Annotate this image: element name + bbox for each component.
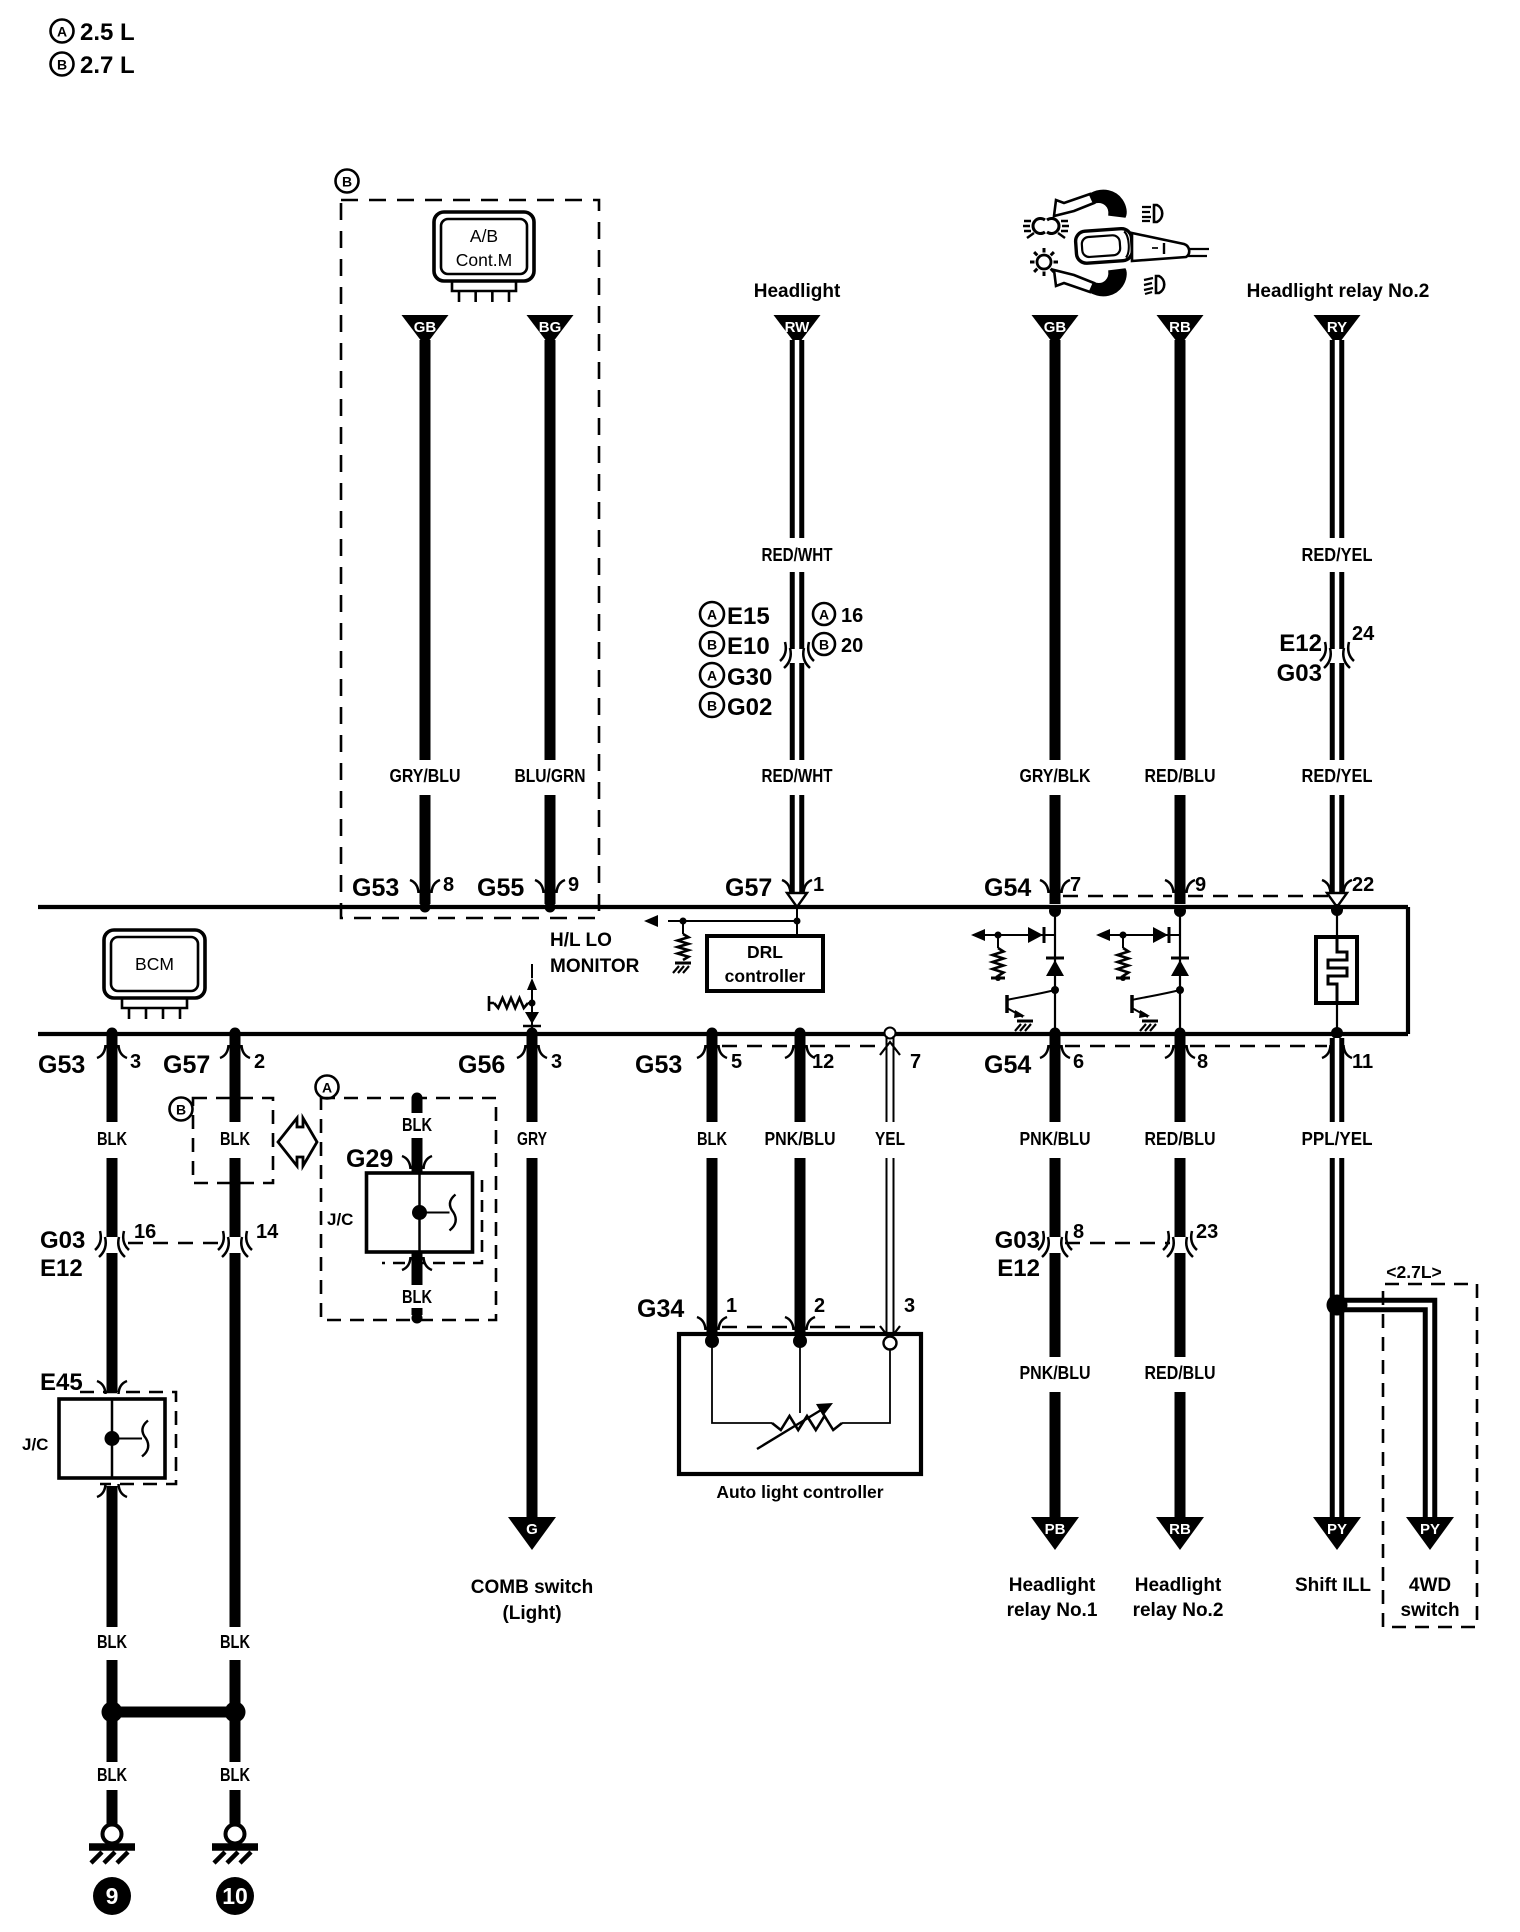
svg-text:Headlight: Headlight — [1135, 1575, 1222, 1596]
svg-text:GRY: GRY — [517, 1128, 548, 1149]
svg-text:RED/BLU: RED/BLU — [1145, 765, 1216, 786]
svg-text:G03: G03 — [1277, 660, 1322, 687]
svg-text:B: B — [342, 174, 352, 190]
svg-text:GB: GB — [1044, 319, 1067, 336]
svg-text:2.7 L: 2.7 L — [80, 52, 135, 79]
svg-text:A: A — [819, 607, 829, 623]
svg-text:G56: G56 — [458, 1051, 505, 1079]
svg-text:9: 9 — [568, 874, 579, 896]
svg-text:1: 1 — [726, 1295, 737, 1317]
svg-text:H/L LO: H/L LO — [550, 930, 612, 951]
svg-text:E12: E12 — [997, 1255, 1040, 1282]
svg-text:B: B — [57, 57, 67, 73]
svg-text:22: 22 — [1352, 874, 1374, 896]
svg-text:G54: G54 — [984, 874, 1031, 902]
svg-text:E15: E15 — [727, 603, 770, 630]
svg-text:G29: G29 — [346, 1145, 393, 1173]
svg-text:COMB switch: COMB switch — [471, 1577, 593, 1598]
svg-text:PB: PB — [1045, 1521, 1066, 1538]
svg-text:16: 16 — [841, 605, 863, 627]
svg-text:3: 3 — [551, 1051, 562, 1073]
svg-text:A: A — [57, 24, 67, 40]
svg-text:RY: RY — [1327, 319, 1347, 336]
svg-text:BLK: BLK — [97, 1631, 127, 1652]
svg-text:24: 24 — [1352, 623, 1375, 645]
svg-text:A: A — [707, 607, 717, 623]
svg-text:E12: E12 — [1279, 630, 1322, 657]
svg-text:G03: G03 — [40, 1227, 85, 1254]
svg-text:BLK: BLK — [402, 1114, 432, 1135]
svg-text:RW: RW — [785, 319, 811, 336]
svg-text:A: A — [707, 668, 717, 684]
svg-text:1: 1 — [813, 874, 824, 896]
svg-text:BLK: BLK — [220, 1764, 250, 1785]
svg-text:BLU/GRN: BLU/GRN — [515, 765, 586, 786]
svg-text:B: B — [707, 637, 717, 653]
svg-text:G53: G53 — [38, 1051, 85, 1079]
svg-text:G02: G02 — [727, 694, 772, 721]
svg-text:Headlight: Headlight — [1009, 1575, 1096, 1596]
svg-text:GRY/BLK: GRY/BLK — [1020, 765, 1092, 786]
svg-text:J/C: J/C — [22, 1435, 48, 1454]
svg-text:PNK/BLU: PNK/BLU — [1020, 1128, 1091, 1149]
svg-text:A: A — [322, 1080, 332, 1096]
svg-text:controller: controller — [725, 966, 806, 986]
svg-text:RED/YEL: RED/YEL — [1302, 765, 1373, 786]
svg-text:J/C: J/C — [327, 1210, 353, 1229]
svg-text:BG: BG — [539, 319, 562, 336]
svg-text:3: 3 — [904, 1295, 915, 1317]
svg-text:switch: switch — [1400, 1600, 1459, 1621]
svg-text:BLK: BLK — [220, 1128, 250, 1149]
svg-text:<2.7L>: <2.7L> — [1386, 1262, 1441, 1282]
svg-text:G55: G55 — [477, 874, 524, 902]
svg-text:Cont.M: Cont.M — [456, 250, 512, 270]
svg-text:BLK: BLK — [97, 1128, 127, 1149]
svg-text:6: 6 — [1073, 1051, 1084, 1073]
svg-text:PY: PY — [1420, 1521, 1440, 1538]
svg-text:A/B: A/B — [470, 226, 498, 246]
svg-text:7: 7 — [910, 1051, 921, 1073]
svg-text:BLK: BLK — [402, 1286, 432, 1307]
svg-text:2: 2 — [814, 1295, 825, 1317]
svg-text:G34: G34 — [637, 1295, 684, 1323]
svg-text:BLK: BLK — [97, 1764, 127, 1785]
svg-text:PNK/BLU: PNK/BLU — [1020, 1362, 1091, 1383]
svg-text:14: 14 — [256, 1221, 279, 1243]
svg-text:G03: G03 — [995, 1227, 1040, 1254]
svg-text:Shift ILL: Shift ILL — [1295, 1575, 1371, 1596]
svg-text:RED/YEL: RED/YEL — [1302, 544, 1373, 565]
svg-text:8: 8 — [1073, 1221, 1084, 1243]
svg-text:RB: RB — [1169, 319, 1191, 336]
svg-text:GRY/BLU: GRY/BLU — [390, 765, 461, 786]
svg-text:G57: G57 — [725, 874, 772, 902]
svg-text:RED/WHT: RED/WHT — [762, 765, 834, 786]
svg-text:16: 16 — [134, 1221, 156, 1243]
svg-text:G57: G57 — [163, 1051, 210, 1079]
svg-text:BLK: BLK — [220, 1631, 250, 1652]
svg-text:DRL: DRL — [747, 942, 783, 962]
svg-text:E12: E12 — [40, 1255, 83, 1282]
svg-text:GB: GB — [414, 319, 437, 336]
svg-text:10: 10 — [222, 1883, 248, 1909]
svg-text:23: 23 — [1196, 1221, 1218, 1243]
svg-text:G30: G30 — [727, 664, 772, 691]
svg-text:7: 7 — [1070, 874, 1081, 896]
svg-text:2.5 L: 2.5 L — [80, 19, 135, 46]
svg-text:RB: RB — [1169, 1521, 1191, 1538]
svg-text:8: 8 — [1197, 1051, 1208, 1073]
svg-text:PY: PY — [1327, 1521, 1347, 1538]
svg-text:G: G — [526, 1521, 538, 1538]
svg-text:Headlight relay No.2: Headlight relay No.2 — [1247, 281, 1430, 302]
svg-text:RED/WHT: RED/WHT — [762, 544, 834, 565]
svg-text:MONITOR: MONITOR — [550, 956, 640, 977]
svg-text:B: B — [176, 1102, 186, 1118]
svg-text:20: 20 — [841, 635, 863, 657]
svg-text:8: 8 — [443, 874, 454, 896]
svg-text:BLK: BLK — [697, 1128, 727, 1149]
svg-text:Headlight: Headlight — [754, 281, 841, 302]
svg-text:BCM: BCM — [135, 954, 174, 974]
svg-text:RED/BLU: RED/BLU — [1145, 1362, 1216, 1383]
svg-text:9: 9 — [106, 1883, 119, 1909]
svg-text:RED/BLU: RED/BLU — [1145, 1128, 1216, 1149]
svg-text:5: 5 — [731, 1051, 742, 1073]
svg-text:(Light): (Light) — [502, 1603, 561, 1624]
svg-text:PNK/BLU: PNK/BLU — [765, 1128, 836, 1149]
svg-text:2: 2 — [254, 1051, 265, 1073]
svg-text:Auto light controller: Auto light controller — [716, 1482, 883, 1502]
svg-text:4WD: 4WD — [1409, 1575, 1451, 1596]
svg-text:G53: G53 — [352, 874, 399, 902]
svg-text:E45: E45 — [40, 1369, 83, 1396]
svg-text:B: B — [707, 698, 717, 714]
svg-text:B: B — [819, 637, 829, 653]
svg-text:G53: G53 — [635, 1051, 682, 1079]
svg-text:E10: E10 — [727, 633, 770, 660]
svg-text:11: 11 — [1352, 1051, 1373, 1073]
svg-text:relay No.1: relay No.1 — [1007, 1600, 1098, 1621]
svg-text:relay No.2: relay No.2 — [1133, 1600, 1224, 1621]
svg-text:12: 12 — [812, 1051, 834, 1073]
svg-text:YEL: YEL — [875, 1128, 905, 1149]
svg-text:PPL/YEL: PPL/YEL — [1302, 1128, 1373, 1149]
svg-text:3: 3 — [130, 1051, 141, 1073]
svg-text:9: 9 — [1195, 874, 1206, 896]
svg-text:G54: G54 — [984, 1051, 1031, 1079]
